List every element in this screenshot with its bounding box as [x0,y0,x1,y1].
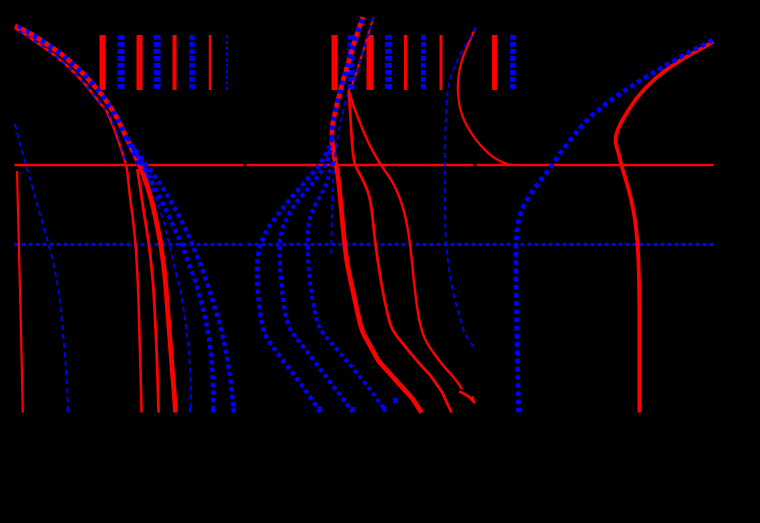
left blue thin dashed B0 [139,155,191,413]
C-pair thin blue dash [445,28,476,349]
middle red M-R3 [349,91,462,389]
top vertical bars group 2 [335,35,514,90]
middle blue dotted MB3 [307,162,385,411]
far-left blue dashed curve [15,124,68,413]
left thin blue dash (pairs outer red, in gap) [19,31,127,165]
middle blue dotted MB2 [279,150,353,412]
red horizontal line y=165 with gaps at 245 and 475 [15,164,714,166]
top vertical bars group 1 [103,35,228,90]
far-left red curve R0 [17,171,23,413]
left band blue dotted overlay (interleaved on same path) [15,26,140,165]
middle blue dotted MB1 [257,138,332,412]
left red R2 (medium) [137,169,158,413]
left blue dotted B1 [133,148,213,413]
middle thin red (upper part of thin pair) [349,17,374,91]
RIGHT pair: blue dotted curve [516,40,713,413]
C-pair thin red [458,29,514,165]
middle thin blue dash overlay on thin pair, continuing to hug thick red [331,17,373,254]
terminal dots of blue dotted curves [67,398,522,413]
blue dotted horizontal line y=244.5 with gap at 245 [15,243,714,246]
M-R3 end hook [459,392,474,402]
middle thick blue dotted overlay on band (same path) [332,17,363,140]
left thin red R1 [15,28,142,413]
middle thick red [332,17,422,413]
middle red M-R2 [349,91,452,413]
RIGHT pair: big red curve [616,42,714,413]
left blue dotted B2 [127,138,234,413]
left band thick red (tip portion) continuing to R3 thick [15,26,176,413]
